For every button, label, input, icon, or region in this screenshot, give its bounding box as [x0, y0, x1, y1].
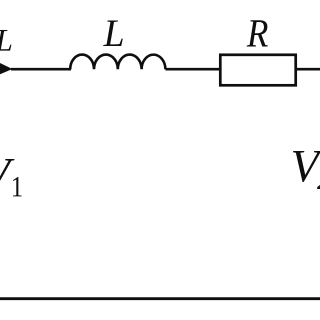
node V1 label (italic V, clipped at left edge) [0, 159, 14, 190]
wire from resistor to right edge [295, 68, 320, 71]
V1 subscript 1 [13, 177, 22, 196]
wire from arrow to inductor [11, 68, 71, 71]
wire from inductor to resistor [165, 68, 221, 71]
inductor L (4 semicircular bumps) [70, 55, 165, 70]
V2 subscript 2 (italic, clipped at right edge) [317, 169, 320, 189]
node V2 label (italic V at right) [293, 151, 320, 182]
label R (resistor, italic) [247, 20, 268, 46]
label L (inductor, italic) [103, 20, 123, 46]
resistor R (rectangle body) [220, 55, 295, 86]
bottom return wire [0, 297, 320, 300]
label iL subscript L (italic letter L, clipped at left edge) [0, 30, 11, 51]
current arrow iL (arrowhead on top wire, clipped at left edge) [0, 61, 12, 76]
